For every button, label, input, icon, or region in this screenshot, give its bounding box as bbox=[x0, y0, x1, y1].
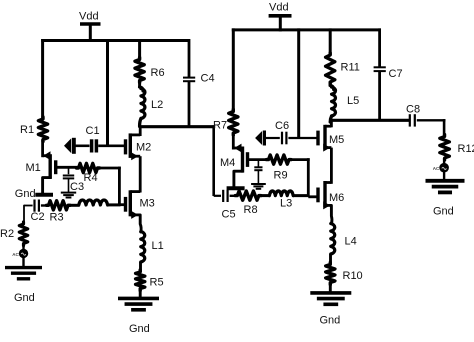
ground under R10 bbox=[310, 293, 351, 304]
wire M6 source to L4 bbox=[330, 205, 333, 223]
gate inductor stage1 bbox=[79, 200, 108, 205]
node 2 output line bbox=[330, 119, 409, 122]
svg-text:R11: R11 bbox=[341, 62, 360, 74]
svg-text:M1: M1 bbox=[26, 162, 41, 174]
label L5 bbox=[347, 95, 359, 107]
svg-text:R8: R8 bbox=[244, 204, 258, 216]
transistor M1 bbox=[26, 151, 80, 193]
label R8 bbox=[244, 204, 258, 216]
inductor L2 bbox=[140, 81, 145, 127]
svg-text:C2: C2 bbox=[31, 211, 45, 223]
svg-text:Gnd: Gnd bbox=[129, 323, 150, 335]
label Gnd bottom stage1 bbox=[129, 323, 150, 335]
wire R3 to inductor bbox=[68, 204, 80, 207]
svg-text:Gnd: Gnd bbox=[320, 315, 341, 327]
capacitor C1 bbox=[75, 125, 126, 153]
wire rail1 to M2 gate node bbox=[106, 39, 109, 147]
svg-text:L4: L4 bbox=[345, 236, 357, 248]
inductor L4 bbox=[331, 224, 357, 255]
svg-text:R12: R12 bbox=[458, 143, 474, 155]
wire rail1 to R1 bbox=[41, 39, 44, 119]
svg-text:R10: R10 bbox=[343, 270, 363, 282]
capacitor C5 bbox=[222, 190, 238, 221]
AC source at R12 bbox=[433, 158, 449, 173]
wire inductor to M3 gate bbox=[108, 203, 121, 206]
ground under R12 bbox=[426, 181, 465, 193]
transistor M5 bbox=[318, 125, 344, 152]
svg-text:M6: M6 bbox=[329, 192, 344, 204]
resistor R3 bbox=[47, 201, 71, 210]
AC source at R2 bbox=[12, 244, 28, 259]
svg-text:Gnd: Gnd bbox=[433, 206, 454, 218]
capacitor C2 bbox=[31, 200, 49, 224]
inductor L3 bbox=[269, 191, 293, 196]
wire Vdd rail 1 bbox=[41, 39, 190, 42]
label R2 bbox=[0, 228, 14, 240]
wire M5 drain to node 2 bbox=[330, 120, 333, 127]
power symbol Vdd (stage 1) bbox=[79, 11, 101, 43]
svg-text:M5: M5 bbox=[329, 134, 344, 146]
svg-text:M4: M4 bbox=[220, 157, 235, 169]
svg-text:Gnd: Gnd bbox=[15, 188, 36, 200]
resistor R6 bbox=[135, 39, 165, 83]
wire C8 to R12 bbox=[443, 119, 446, 136]
resistor R4 bbox=[77, 163, 100, 184]
resistor R1 bbox=[20, 117, 48, 142]
wire L4 to R10 bbox=[329, 254, 332, 265]
transistor M4 bbox=[220, 144, 269, 187]
svg-text:M3: M3 bbox=[140, 198, 155, 210]
node 1 output line bbox=[140, 125, 216, 128]
inductor L1 bbox=[141, 232, 164, 263]
wire L1 to R5 bbox=[139, 262, 142, 272]
svg-text:C3: C3 bbox=[70, 181, 84, 193]
transistor M6 bbox=[308, 181, 344, 209]
svg-text:AC: AC bbox=[12, 252, 19, 257]
ground bar at M4 source bbox=[227, 186, 245, 190]
label Gnd under R2 bbox=[14, 292, 35, 304]
svg-text:C8: C8 bbox=[406, 104, 420, 116]
label Gnd under R12 bbox=[433, 206, 454, 218]
wire R9 to gate junction bbox=[289, 158, 310, 197]
wire R1 to M1 drain bbox=[41, 140, 44, 158]
resistor R12 bbox=[440, 135, 474, 161]
svg-text:C4: C4 bbox=[201, 73, 215, 85]
wire R5 to ground 1 bbox=[139, 289, 142, 300]
svg-text:M2: M2 bbox=[136, 142, 151, 154]
resistor R10 bbox=[326, 263, 363, 285]
resistor R9 bbox=[267, 155, 292, 182]
label L2 bbox=[151, 99, 163, 111]
resistor R2 bbox=[19, 222, 27, 246]
capacitor C4 bbox=[183, 39, 215, 127]
wire M5 source to M6 drain bbox=[330, 148, 333, 184]
svg-text:AC: AC bbox=[433, 166, 440, 171]
power symbol Vdd (stage 2) bbox=[269, 2, 292, 32]
svg-text:L2: L2 bbox=[151, 99, 163, 111]
svg-text:R7: R7 bbox=[213, 120, 227, 132]
capacitor C6 bbox=[266, 120, 318, 144]
wire M2 drain to node 1 bbox=[139, 127, 142, 136]
transistor M3 bbox=[119, 190, 154, 219]
svg-text:R5: R5 bbox=[150, 277, 164, 289]
svg-text:R1: R1 bbox=[20, 124, 34, 136]
capacitor with ground at M4 gate bbox=[251, 160, 266, 189]
wire R4 to gate junction bbox=[98, 167, 121, 206]
svg-text:R3: R3 bbox=[50, 212, 64, 224]
svg-text:L5: L5 bbox=[347, 95, 359, 107]
capacitor C3 with ground bbox=[61, 167, 84, 197]
wire rail2 to M5 gate node bbox=[297, 28, 300, 138]
svg-text:Vdd: Vdd bbox=[269, 2, 289, 14]
svg-text:C7: C7 bbox=[389, 68, 403, 80]
svg-text:C5: C5 bbox=[222, 209, 236, 221]
inductor L5 bbox=[330, 82, 335, 122]
svg-text:R2: R2 bbox=[0, 228, 14, 240]
resistor R11 bbox=[326, 28, 360, 84]
wire M3 source to L1 bbox=[139, 215, 143, 232]
wire rail2 to R7 bbox=[232, 28, 235, 111]
svg-text:R4: R4 bbox=[84, 172, 98, 184]
svg-text:C1: C1 bbox=[86, 125, 100, 137]
wire R8 to L3 bbox=[259, 194, 270, 197]
resistor R8 bbox=[235, 191, 260, 200]
resistor R5 bbox=[136, 270, 164, 291]
ground bar at M1 source (Gnd) bbox=[15, 188, 53, 200]
label R3 bbox=[50, 212, 64, 224]
label L3 bbox=[280, 198, 292, 210]
wire AC to ground right bbox=[443, 172, 445, 182]
wire node1 to stage2 input bbox=[214, 125, 221, 196]
ground under R2 bbox=[5, 268, 42, 279]
svg-text:R9: R9 bbox=[274, 170, 288, 182]
svg-text:L1: L1 bbox=[152, 240, 164, 252]
svg-text:L3: L3 bbox=[280, 198, 292, 210]
svg-text:C6: C6 bbox=[275, 120, 289, 132]
sideways ground at C1 bbox=[64, 138, 74, 154]
svg-text:Gnd: Gnd bbox=[14, 292, 35, 304]
ground under R5 bbox=[118, 298, 159, 309]
sideways ground at C6 bbox=[255, 131, 264, 146]
wire M2 source to M3 drain bbox=[139, 156, 142, 192]
wire R7 to M4 drain bbox=[232, 133, 235, 150]
wire input corner bbox=[24, 206, 33, 225]
wire Vdd rail 2 bbox=[232, 28, 381, 31]
resistor R7 bbox=[213, 110, 238, 136]
capacitor C8 bbox=[406, 104, 446, 127]
transistor M2 bbox=[126, 133, 152, 160]
capacitor C7 bbox=[374, 28, 403, 121]
svg-text:R6: R6 bbox=[151, 67, 165, 79]
label Gnd bottom stage2 bbox=[320, 315, 341, 327]
wire AC to ground bbox=[22, 258, 24, 268]
svg-text:Vdd: Vdd bbox=[79, 11, 99, 23]
wire L3 to M6 gate bbox=[293, 194, 309, 197]
wire R10 to ground 2 bbox=[329, 283, 332, 294]
